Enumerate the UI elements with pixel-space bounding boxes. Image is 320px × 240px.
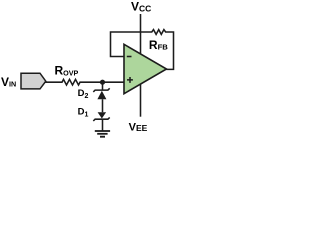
svg-text:VIN: VIN (1, 75, 16, 89)
svg-text:D2: D2 (78, 88, 89, 100)
svg-text:VCC: VCC (131, 0, 151, 14)
svg-text:D1: D1 (78, 107, 89, 119)
svg-text:RFB: RFB (149, 38, 168, 52)
svg-text:VEE: VEE (129, 121, 148, 133)
svg-text:ROVP: ROVP (55, 63, 79, 77)
